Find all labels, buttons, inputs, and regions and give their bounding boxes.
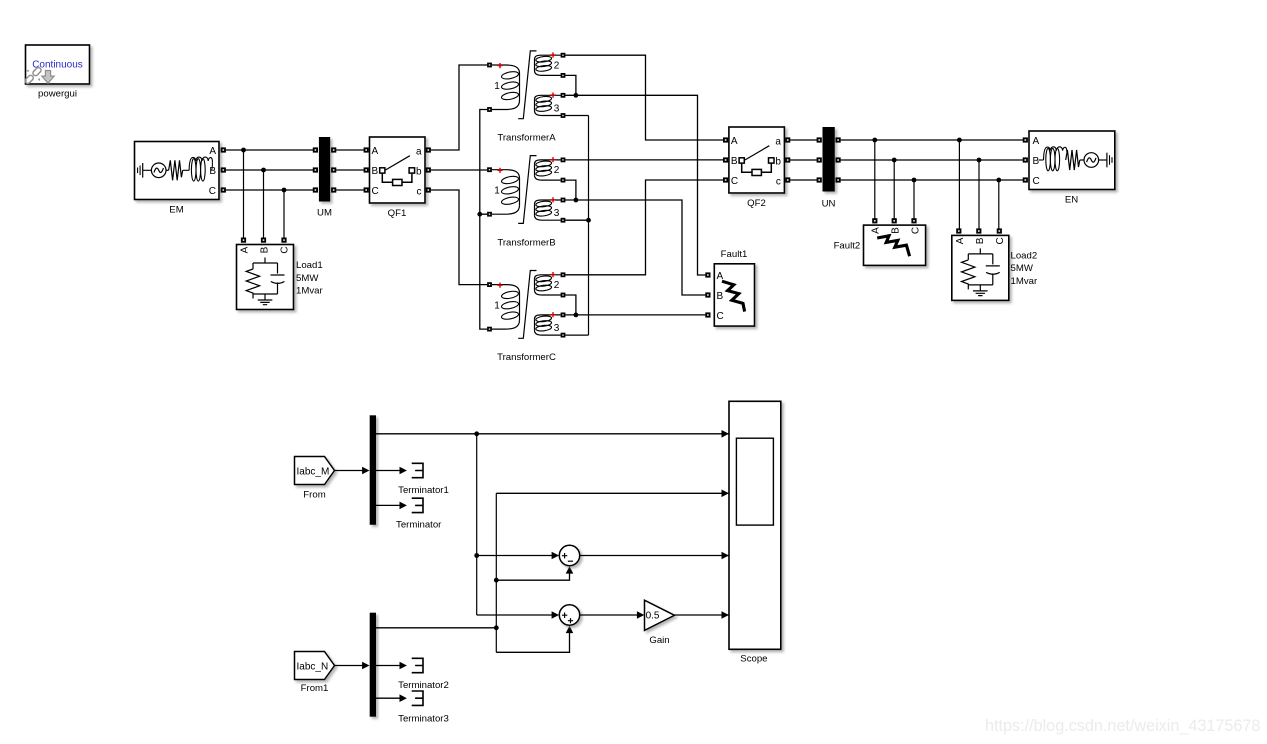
wire demux1 out2 to Terminator1 — [376, 470, 400, 472]
winding 2 port top — [561, 53, 566, 58]
wire demux2 out2 to Terminator2 — [376, 665, 400, 667]
svg-text:5MW: 5MW — [1011, 263, 1034, 274]
EM internal resistor — [169, 160, 183, 180]
svg-text:QF2: QF2 — [747, 198, 766, 209]
svg-text:2: 2 — [554, 60, 560, 71]
UM right port b — [331, 167, 336, 172]
svg-text:TransformerC: TransformerC — [497, 352, 556, 363]
goto tag From — [295, 457, 335, 485]
wire TransformerC w3 top node to Fault1 C — [565, 314, 705, 316]
wire primary neutral bus — [480, 110, 487, 330]
node tap C to Fault2 — [912, 178, 917, 183]
wire Sum1 output to Scope — [580, 555, 729, 557]
UN left port B — [817, 157, 822, 162]
wire TransformerB w3 bottom to shared line — [565, 219, 588, 221]
arrowhead Scope input2 — [722, 490, 729, 498]
EN port C — [1023, 177, 1028, 182]
svg-text:C: C — [209, 186, 216, 197]
fault block Fault2 — [864, 225, 926, 265]
wire Iabc_N vertical distribution — [495, 493, 497, 652]
wire From to demux1 — [335, 470, 364, 472]
EM port A — [221, 147, 226, 152]
wire TransformerC w2 top to QF2 C — [565, 180, 723, 275]
EM internal inductor — [183, 157, 213, 181]
node tap A to Load2 — [957, 138, 962, 143]
wire demux2 out1 — [376, 627, 496, 629]
terminator Terminator — [412, 498, 423, 512]
svg-text:Load1: Load1 — [296, 260, 323, 271]
UN right port a — [836, 137, 841, 142]
svg-text:Iabc_M: Iabc_M — [297, 466, 330, 477]
svg-text:UM: UM — [317, 208, 332, 219]
winding 3 spine — [534, 100, 536, 111]
wire UN b to EN B — [841, 159, 1023, 161]
svg-text:QF1: QF1 — [388, 208, 407, 219]
wire to Sum1 left input — [477, 555, 552, 557]
demux bar 1 — [370, 415, 376, 525]
svg-text:c: c — [417, 186, 422, 197]
winding 1 spine — [519, 74, 521, 101]
sum block Sum2 — [559, 605, 579, 625]
UN left port A — [817, 137, 822, 142]
arrowhead Sum2 left — [552, 611, 559, 619]
load block Load1 — [237, 238, 294, 310]
winding 1 port top — [487, 63, 492, 68]
demux bar 2 — [370, 613, 376, 717]
powergui update-arrow icon — [42, 71, 54, 84]
wire UN a to EN A — [841, 139, 1023, 141]
arrowhead Scope input1 — [722, 430, 729, 438]
svg-text:C: C — [372, 186, 379, 197]
wire QF1 b to TransformerB — [431, 169, 487, 171]
wire TransformerA w3 bottom to shared line — [565, 115, 588, 117]
node TransformerB secondary junction — [574, 198, 579, 203]
EM port C — [221, 187, 226, 192]
svg-text:1: 1 — [494, 81, 500, 92]
winding 3 port bottom — [561, 113, 566, 118]
EN internal inductor — [1039, 147, 1067, 171]
wire TransformerA w2 bottom to node — [565, 75, 576, 95]
Fault2 port A — [872, 218, 877, 223]
svg-text:B: B — [209, 166, 216, 177]
svg-text:UN: UN — [822, 199, 836, 210]
winding 3 lead top — [535, 95, 561, 99]
svg-text:C: C — [717, 311, 724, 322]
node shared neutral junction — [586, 218, 591, 223]
EN port A — [1023, 137, 1028, 142]
wire drop Fault2 C — [913, 180, 915, 219]
wire drop Load1 C — [283, 190, 285, 239]
wire drop Fault2 B — [893, 160, 895, 219]
wire UM to QF1 A — [336, 149, 364, 151]
svg-text:3: 3 — [554, 103, 560, 114]
svg-text:B: B — [260, 246, 271, 253]
EM internal ground — [138, 163, 152, 178]
wire EM C to UM — [226, 189, 313, 191]
terminator Terminator3 — [412, 691, 423, 705]
transformer TransformerC — [487, 271, 565, 339]
sum block Sum1 — [559, 545, 579, 565]
wire TransformerB w2 bottom to node — [565, 180, 576, 200]
winding 2 loop petals — [536, 56, 552, 72]
Fault2 port B — [892, 218, 897, 223]
winding 2 spine — [534, 60, 536, 71]
wire QF1 c to TransformerC — [431, 190, 487, 285]
svg-text:Load2: Load2 — [1011, 250, 1038, 261]
svg-text:Gain: Gain — [649, 635, 669, 646]
svg-text:Terminator2: Terminator2 — [398, 680, 449, 691]
svg-text:B: B — [717, 291, 724, 302]
svg-text:C: C — [911, 227, 922, 234]
EN port B — [1023, 157, 1028, 162]
arrowhead Sum1 left — [552, 552, 559, 560]
wire Sum2 output to Gain — [580, 614, 637, 616]
wire TransformerB w3 top node to Fault1 B — [565, 200, 705, 295]
wire TransformerC w3 bottom to shared line — [565, 334, 588, 336]
node Iabc_N demux junction — [494, 625, 499, 630]
wire to Sum2 left input — [477, 614, 552, 616]
node tap C to Load1 — [282, 188, 287, 193]
svg-text:Fault2: Fault2 — [834, 240, 861, 251]
Fault1 lightning icon — [722, 281, 745, 311]
breaker QF2 — [723, 127, 790, 193]
Fault1 port B — [705, 292, 710, 297]
EM port B — [221, 167, 226, 172]
wire secondary shared neutral — [588, 116, 590, 336]
arrowhead into demux2 — [362, 662, 369, 670]
winding 3 loop petals — [536, 96, 552, 112]
svg-text:Terminator1: Terminator1 — [398, 485, 449, 496]
node tap A to Load1 — [241, 148, 246, 153]
svg-text:EM: EM — [169, 204, 183, 215]
arrowhead into demux1 — [362, 467, 369, 475]
svg-text:TransformerA: TransformerA — [497, 133, 556, 144]
wire drop Load2 A — [958, 140, 960, 229]
wire Iabc_N to Sum2 bottom input — [496, 628, 569, 653]
svg-text:https://blog.csdn.net/weixin_4: https://blog.csdn.net/weixin_43175678 — [985, 717, 1260, 735]
winding 3 polarity plus — [550, 93, 555, 98]
arrowhead into Terminator2 — [400, 662, 407, 670]
winding 1 lead bottom — [492, 101, 520, 110]
wire TransformerB w2 top to QF2 B — [565, 159, 723, 161]
gain block Gain — [645, 600, 675, 630]
terminator Terminator2 — [412, 658, 423, 672]
node TransformerA secondary junction — [574, 93, 579, 98]
node tap A to Fault2 — [872, 138, 877, 143]
svg-text:Fault1: Fault1 — [721, 249, 748, 260]
node primary neutral junction — [477, 212, 482, 217]
EN internal ground — [1107, 153, 1112, 168]
svg-text:1Mvar: 1Mvar — [296, 286, 323, 297]
node tap B to Load1 — [261, 168, 266, 173]
svg-text:From: From — [303, 490, 325, 501]
scope block Scope — [729, 401, 781, 649]
wire Iabc_M vertical distribution — [476, 434, 478, 615]
arrowhead Gain input — [637, 611, 644, 619]
wire UM to QF1 C — [336, 189, 364, 191]
Fault2 port C — [911, 218, 916, 223]
wire demux2 out3 to Terminator3 — [376, 697, 400, 699]
load block Load2 — [952, 228, 1009, 300]
node Iabc_N to Sum1 — [494, 578, 499, 583]
wire drop Load1 B — [263, 170, 265, 239]
UM left port C — [313, 187, 318, 192]
wire demux1 out3 to Terminator — [376, 504, 400, 506]
breaker QF1 — [364, 137, 431, 203]
winding 2 lead top — [535, 55, 561, 59]
bus bar UM — [319, 137, 330, 202]
node Iabc_M to Sum1 — [474, 553, 479, 558]
arrowhead into Terminator3 — [400, 694, 407, 702]
winding 2 lead bottom — [535, 71, 561, 76]
svg-text:Terminator: Terminator — [396, 519, 442, 530]
source block EN — [1029, 131, 1115, 190]
UM left port A — [313, 147, 318, 152]
UN left port C — [817, 177, 822, 182]
arrowhead into Terminator1 — [400, 467, 407, 475]
wire EM A to UM — [226, 149, 313, 151]
EM internal AC source — [151, 163, 168, 178]
EN internal resistor — [1066, 150, 1080, 170]
wire TransformerC w2 bottom to node — [565, 295, 576, 315]
node Iabc_M scope tap — [474, 431, 479, 436]
bus bar UN — [823, 127, 835, 192]
wire TransformerA w3 top node to Fault1 A — [565, 95, 705, 275]
svg-text:B: B — [891, 227, 902, 234]
svg-text:A: A — [240, 246, 251, 253]
wire From1 to demux2 — [335, 665, 364, 667]
goto tag From1 — [295, 652, 335, 680]
svg-text:C: C — [1033, 176, 1040, 187]
UM right port a — [331, 147, 336, 152]
wire demux1 out1 to Scope — [376, 433, 729, 435]
svg-text:b: b — [416, 166, 422, 177]
wire drop Load1 A — [243, 150, 245, 239]
UN right port c — [836, 177, 841, 182]
svg-text:A: A — [1033, 136, 1040, 147]
core slash — [518, 51, 536, 119]
svg-text:Scope: Scope — [740, 654, 767, 665]
wire UN c to EN C — [841, 179, 1023, 181]
wire Iabc_N to Sum1 bottom input — [496, 568, 569, 580]
arrowhead Sum2 bottom — [566, 626, 574, 633]
UN right port b — [836, 157, 841, 162]
winding 2 port bottom — [561, 73, 566, 78]
winding 1 lead top — [492, 65, 520, 74]
wire QF2 b to UN — [790, 159, 817, 161]
fault block Fault1 — [714, 264, 754, 326]
wire Iabc_N to Scope input2 — [496, 492, 729, 494]
winding 1 loop petals — [501, 70, 519, 100]
arrowhead Scope input4 — [722, 611, 729, 619]
node tap C to Load2 — [996, 178, 1001, 183]
svg-text:EN: EN — [1065, 195, 1078, 206]
wire QF2 a to UN — [790, 139, 817, 141]
svg-text:Terminator3: Terminator3 — [398, 714, 449, 725]
powergui block — [26, 45, 90, 84]
wire QF2 c to UN — [790, 179, 817, 181]
svg-text:Iabc_N: Iabc_N — [297, 661, 329, 672]
transformer TransformerA — [487, 51, 565, 119]
svg-text:0.5: 0.5 — [646, 611, 660, 622]
powergui broken-link icon — [24, 67, 42, 85]
Fault1 port C — [705, 312, 710, 317]
EN internal AC source — [1080, 153, 1107, 168]
wire drop Load2 B — [978, 160, 980, 229]
node tap B to Load2 — [977, 158, 982, 163]
winding 3 port top — [561, 93, 566, 98]
svg-text:5MW: 5MW — [296, 273, 319, 284]
arrowhead into Terminator — [400, 502, 407, 510]
arrowhead Scope input3 — [722, 552, 729, 560]
wire drop Fault2 A — [874, 140, 876, 219]
svg-text:A: A — [209, 146, 216, 157]
svg-text:C: C — [280, 246, 291, 253]
arrowhead Sum1 bottom — [566, 566, 574, 573]
wire Gain output to Scope — [675, 614, 729, 616]
svg-text:B: B — [372, 166, 379, 177]
winding 1 polarity plus — [497, 63, 502, 68]
terminator Terminator1 — [412, 463, 423, 477]
UM right port c — [331, 187, 336, 192]
wire UM to QF1 B — [336, 169, 364, 171]
svg-text:powergui: powergui — [38, 89, 77, 100]
node TransformerC secondary junction — [574, 313, 579, 318]
wire QF1 a to TransformerA — [431, 65, 487, 150]
svg-text:TransformerB: TransformerB — [497, 237, 555, 248]
Fault2 lightning icon — [877, 236, 909, 256]
winding 3 lead bottom — [535, 111, 561, 116]
node tap B to Fault2 — [892, 158, 897, 163]
UM left port B — [313, 167, 318, 172]
Fault1 port A — [705, 272, 710, 277]
transformer TransformerB — [487, 156, 565, 224]
wire drop Load2 C — [998, 180, 1000, 229]
svg-text:a: a — [416, 146, 422, 157]
wire EM B to UM — [226, 169, 313, 171]
svg-text:1Mvar: 1Mvar — [1011, 276, 1038, 287]
svg-text:A: A — [372, 146, 379, 157]
svg-text:B: B — [1033, 156, 1040, 167]
svg-text:A: A — [870, 227, 881, 234]
winding 2 polarity plus — [550, 52, 555, 57]
svg-text:From1: From1 — [301, 683, 329, 694]
wire TransformerA w2 top to QF2 A — [565, 55, 723, 140]
winding 1 port bottom — [487, 107, 492, 112]
source block EM — [135, 142, 220, 200]
